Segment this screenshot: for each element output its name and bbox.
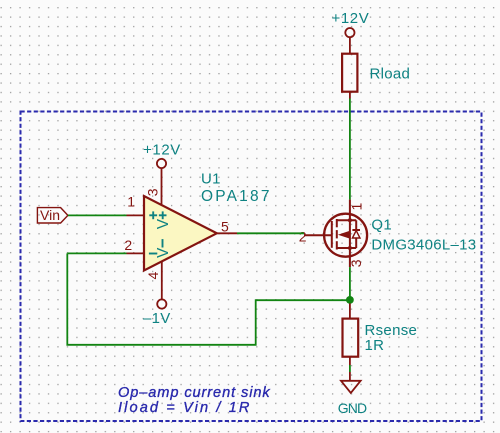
- svg-text:2: 2: [124, 237, 132, 253]
- svg-text:+12V: +12V: [143, 142, 181, 159]
- power symbol +12V (top): [345, 28, 354, 54]
- power symbol -1V: [157, 299, 166, 308]
- op-amp U1 body: [144, 196, 217, 271]
- U1 V+ marking (rotated): [159, 214, 167, 216]
- svg-text:GND: GND: [338, 400, 367, 416]
- svg-text:2: 2: [299, 228, 307, 244]
- wire: feedback left vertical: [67, 253, 350, 344]
- Rsense pin stubs: [349, 303, 351, 318]
- Q1 drain internal horizontal: [337, 219, 356, 221]
- U1 pin 1 stub: [127, 214, 145, 216]
- svg-text:3: 3: [145, 188, 161, 196]
- transistor Q1 (NMOS, DMG3406L-13): [304, 200, 367, 268]
- Q1 channel segments: [336, 219, 338, 227]
- wire: U1 output to Q1 gate: [237, 232, 304, 234]
- svg-text:1: 1: [349, 203, 365, 211]
- Q1 body circle: [324, 214, 367, 257]
- wire: Q1 source to junction: [349, 267, 351, 303]
- U1 pin 2 stub: [127, 252, 145, 254]
- U1 pin 3 stub (V+): [161, 168, 163, 205]
- svg-text:4: 4: [145, 272, 161, 280]
- Q1 source internal horizontal: [337, 247, 356, 249]
- svg-text:3: 3: [348, 259, 364, 267]
- wire: U1 pin 2 horizontal: [67, 252, 126, 254]
- svg-text:5: 5: [221, 219, 229, 235]
- power symbol +12V (op-amp): [157, 159, 166, 168]
- svg-text:Q1: Q1: [371, 216, 392, 233]
- svg-text:1R: 1R: [365, 337, 385, 354]
- Q1 internal vertical: [349, 220, 351, 248]
- junction (green dot): [346, 296, 354, 304]
- svg-text:V: V: [155, 247, 172, 258]
- svg-text:Rload: Rload: [370, 66, 411, 83]
- global label Vin: [37, 208, 68, 223]
- wire: Vin to U1 pin 1: [68, 214, 127, 216]
- svg-text:–1V: –1V: [143, 310, 171, 327]
- U1 pin 4 stub (V-): [161, 262, 163, 299]
- wire: Rload bottom to Q1 drain: [349, 99, 351, 200]
- wire: Rsense to GND: [349, 365, 351, 372]
- U1 V- marking bar (rotated minus): [162, 239, 164, 247]
- svg-text:Iload = Vin / 1R: Iload = Vin / 1R: [118, 400, 252, 416]
- svg-text:U1: U1: [201, 171, 221, 188]
- svg-text:OPA187: OPA187: [201, 188, 272, 205]
- Q1 internal junction dots: [348, 218, 352, 222]
- resistor Rload: [342, 54, 357, 92]
- sheet border (dashed blue rectangle): [21, 112, 482, 422]
- U1 input + marking: [149, 211, 167, 253]
- Q1 source pin (pin 3): [349, 248, 351, 267]
- Q1 drain pin (pin 1): [349, 200, 351, 221]
- svg-text:1: 1: [127, 194, 135, 210]
- svg-text:+12V: +12V: [331, 10, 369, 27]
- svg-text:DMG3406L–13: DMG3406L–13: [371, 236, 476, 253]
- Q1 gate bar: [331, 221, 333, 248]
- ground symbol: [341, 372, 361, 393]
- Rload pin 2 stub: [349, 92, 351, 99]
- svg-text:Op–amp current sink: Op–amp current sink: [118, 385, 271, 401]
- svg-text:V: V: [155, 218, 172, 229]
- U1 input - marking: [149, 253, 157, 255]
- U1 pin 5 stub (output): [217, 232, 237, 234]
- Q1 gate pin (pin 2): [304, 234, 332, 236]
- Q1 body diode: [355, 220, 357, 230]
- Q1 bulk arrow: [338, 231, 350, 239]
- svg-text:Vin: Vin: [40, 207, 60, 223]
- resistor Rsense: [343, 319, 359, 357]
